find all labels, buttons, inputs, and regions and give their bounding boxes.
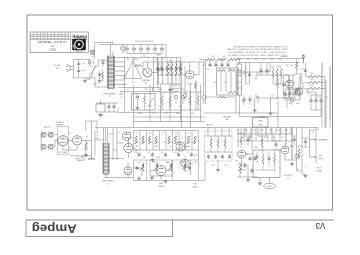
svg-text:40MF: 40MF [158, 89, 162, 91]
label driver1 [256, 97, 260, 102]
svg-text:1/2 WATT UNLESS NOTED. SEE CHA: 1/2 WATT UNLESS NOTED. SEE CHART NO. 120… [228, 54, 289, 57]
lamp DS1 [121, 45, 126, 54]
Ampeg logo [71, 34, 87, 53]
svg-text:C29: C29 [82, 63, 85, 65]
svg-text:R81: R81 [290, 65, 293, 67]
svg-text:ampeg inc: ampeg inc [76, 51, 84, 53]
svg-text:C52: C52 [316, 97, 319, 99]
footer rule [26, 219, 334, 221]
svg-text:C71: C71 [252, 130, 255, 132]
svg-text:J2: J2 [59, 143, 61, 145]
resistors R80 R81 [294, 59, 303, 97]
svg-text:R62: R62 [222, 56, 225, 58]
svg-text:R84: R84 [310, 73, 313, 75]
svg-text:R99: R99 [238, 157, 241, 159]
svg-text:PREAMP: PREAMP [56, 124, 64, 127]
svg-text:RECT: RECT [119, 94, 124, 96]
svg-text:(ECHO): (ECHO) [206, 125, 213, 127]
svg-text:R9: R9 [149, 133, 151, 135]
svg-text:R14: R14 [174, 133, 177, 135]
resistors R50-R53 [167, 62, 181, 84]
svg-text:.02: .02 [281, 137, 283, 139]
capacitor C46 [259, 63, 262, 76]
svg-text:C11: C11 [185, 142, 188, 144]
svg-text:AC BAL: AC BAL [259, 115, 265, 118]
svg-text:V5: V5 [242, 102, 244, 104]
wire B+ bus [143, 62, 205, 88]
preamp lower rows [134, 160, 199, 181]
svg-text:R3: R3 [69, 133, 71, 135]
svg-text:R98: R98 [284, 130, 287, 132]
svg-text:R73: R73 [168, 106, 171, 108]
wire loop box [256, 75, 293, 98]
plug P1 [66, 65, 70, 72]
wire filter rails [73, 59, 90, 78]
label foot pedal [317, 167, 323, 172]
svg-text:R25: R25 [128, 132, 131, 134]
output stage mesh [237, 128, 293, 142]
svg-text:20MF: 20MF [170, 89, 174, 91]
svg-text:C30: C30 [82, 70, 85, 72]
label echo [206, 125, 213, 130]
svg-text:V3: V3 [315, 221, 325, 230]
svg-text:R92: R92 [270, 59, 273, 61]
label ext spkr [319, 156, 325, 161]
label C23 [173, 85, 180, 93]
phase splitter triangle [124, 58, 142, 79]
svg-text:R71: R71 [148, 106, 151, 108]
svg-text:R61: R61 [211, 56, 214, 58]
wire gnd tap [84, 78, 86, 79]
svg-text:R72: R72 [158, 106, 161, 108]
tube V4B [295, 84, 302, 98]
capacitor C31 [94, 71, 102, 86]
wire lower bus [134, 150, 206, 181]
capacitor C33 [101, 59, 104, 67]
svg-text:C61: C61 [262, 59, 265, 61]
svg-text:R40: R40 [225, 119, 228, 121]
jack J2 [50, 133, 53, 136]
svg-text:C8: C8 [143, 142, 145, 144]
speaker arrow 2 [310, 156, 317, 158]
svg-text:CHAS: CHAS [258, 120, 264, 123]
label 117VAC [53, 64, 61, 70]
wire to primary [90, 60, 108, 87]
svg-text:R86: R86 [310, 85, 313, 87]
wire V2 out [63, 128, 95, 161]
ground filter [169, 88, 171, 90]
label ac bal [259, 115, 265, 118]
wire bias drop [205, 60, 207, 105]
capacitors C23-C25 [156, 58, 182, 76]
capacitor C30 [77, 67, 85, 78]
psu left cluster [96, 100, 118, 117]
wire rl net2 [238, 164, 260, 182]
svg-text:12005: 12005 [49, 49, 56, 52]
svg-text:8MF: 8MF [254, 147, 257, 149]
transformer T1 [107, 56, 114, 90]
capacitors C55-C58 [283, 89, 301, 100]
svg-text:117 VAC: 117 VAC [53, 64, 61, 67]
svg-text:PEDAL: PEDAL [317, 169, 323, 172]
wire lower buses [118, 58, 160, 92]
Ampeg footer box [26, 220, 173, 237]
component value labels [59, 56, 328, 171]
reverb unit box [253, 150, 280, 178]
svg-text:8: 8 [306, 167, 307, 169]
resistor R58 [297, 146, 303, 160]
label fig [76, 158, 86, 162]
svg-text:PWR TRANS: PWR TRANS [102, 180, 114, 183]
tube V4B2 [181, 156, 193, 172]
svg-text:MFD 50: MFD 50 [81, 156, 87, 158]
wire mesh verticals [134, 131, 199, 151]
svg-text:6L6: 6L6 [257, 73, 260, 75]
wire rl drops [238, 128, 292, 151]
wire filter join [154, 58, 181, 96]
ground mid2 [151, 176, 153, 178]
tube V6 [281, 146, 292, 154]
tube V3B2 [286, 75, 294, 98]
wire driver top [204, 97, 278, 128]
wire lamp leads [142, 62, 159, 79]
svg-text:C12: C12 [187, 133, 190, 135]
svg-text:SPEAKER: SPEAKER [319, 139, 329, 142]
svg-text:R85: R85 [310, 79, 313, 81]
capacitor C45 [246, 63, 252, 85]
wire mid links [134, 147, 191, 180]
potentiometers [140, 163, 187, 171]
border frame [27, 15, 333, 210]
svg-text:R10: R10 [149, 142, 152, 144]
wire ot verticals [292, 128, 316, 175]
feedback resistors R84-R86 [303, 75, 325, 127]
svg-text:C72: C72 [268, 130, 271, 132]
capacitor C71 [272, 141, 280, 150]
svg-text:Ampeg: Ampeg [32, 221, 77, 233]
svg-text:R15: R15 [177, 142, 180, 144]
label T3 [283, 175, 292, 180]
svg-text:R51: R51 [177, 61, 180, 63]
svg-text:HUM BAL: HUM BAL [223, 115, 231, 118]
svg-text:C60: C60 [246, 59, 249, 61]
fuse F1 [88, 60, 95, 64]
wire rt gnd drops [255, 98, 271, 112]
svg-text:INPUT 1: INPUT 1 [44, 127, 51, 129]
svg-text:C41: C41 [223, 82, 226, 84]
wire rt top bus [237, 59, 304, 64]
svg-text:1N4007: 1N4007 [133, 59, 139, 61]
svg-text:C10: C10 [170, 142, 173, 144]
echo send network [205, 128, 233, 181]
wire mid verticals [182, 62, 204, 128]
svg-text:NO SIGNAL. LINE AT 117 V.A.C.: NO SIGNAL. LINE AT 117 V.A.C. RESISTORS [229, 51, 287, 54]
svg-text:.02: .02 [169, 146, 171, 148]
jack J4 [50, 145, 53, 148]
capacitor C48 [282, 75, 285, 98]
label figure1 [56, 122, 64, 127]
svg-text:R80: R80 [285, 65, 288, 67]
switch SW1 [87, 66, 96, 81]
svg-text:C24: C24 [155, 59, 158, 61]
grounds mid [137, 158, 168, 183]
tube V4C [176, 142, 185, 151]
svg-text:R1: R1 [127, 59, 129, 61]
svg-text:C9: C9 [162, 133, 164, 135]
ground C31 [99, 79, 101, 81]
label T2 [102, 180, 114, 186]
label T1 [104, 92, 117, 98]
resistor R2 [84, 140, 88, 156]
title block [30, 32, 89, 53]
wire AC leads [70, 59, 73, 78]
capacitor C42 [242, 95, 245, 105]
svg-text:RATING. VOLTAGES TO GND MEASUR: RATING. VOLTAGES TO GND MEASURED WITH VT… [227, 48, 288, 51]
svg-text:R1: R1 [145, 83, 147, 85]
capacitor C47 [265, 63, 268, 76]
svg-text:L1: L1 [127, 89, 129, 91]
svg-text:16: 16 [297, 169, 299, 171]
tube V1 [58, 136, 68, 154]
svg-text:R17: R17 [186, 152, 189, 154]
capacitor C63 [302, 138, 310, 147]
ground psu1 [137, 106, 139, 108]
resistor R34 [218, 96, 226, 98]
svg-text:R97: R97 [276, 130, 279, 132]
svg-text:12AX7: 12AX7 [192, 186, 198, 189]
svg-text:C44: C44 [270, 96, 273, 98]
tube V2C [124, 167, 132, 175]
svg-text:12DW7: 12DW7 [158, 186, 164, 188]
tube V3B [156, 166, 166, 189]
note text [227, 45, 289, 57]
ground rt2 [270, 112, 272, 114]
svg-text:.02: .02 [86, 143, 88, 145]
resistor R33 [195, 82, 197, 89]
svg-text:V5: V5 [235, 161, 237, 163]
svg-text:T3: T3 [312, 132, 314, 134]
svg-text:PWR TRANS: PWR TRANS [104, 92, 117, 95]
wire V3A leads [182, 62, 199, 75]
capacitor C50 [304, 63, 307, 77]
svg-text:.02: .02 [157, 142, 159, 144]
svg-text:C70: C70 [236, 130, 239, 132]
svg-text:C40: C40 [213, 82, 216, 84]
svg-text:R96: R96 [260, 130, 263, 132]
svg-text:C9: C9 [148, 152, 150, 154]
wire ot links [292, 130, 316, 174]
resistor R77 [245, 63, 247, 85]
wire T1 top feed [99, 41, 166, 56]
svg-text:470: 470 [307, 93, 310, 95]
wire psu drops [125, 84, 201, 128]
svg-text:.1: .1 [257, 137, 258, 139]
tube V2 [72, 136, 81, 145]
bias network R60 C40 [199, 58, 240, 67]
grounds rl [246, 162, 294, 185]
jack J7 [295, 154, 299, 158]
node B+ arrow [302, 55, 305, 63]
preamp RC network [134, 136, 199, 160]
wire right bus [318, 63, 330, 132]
wire rt extras [237, 63, 330, 128]
svg-text:D1 D2 D3 D4 D5 D6: D1 D2 D3 D4 D5 D6 [135, 41, 154, 43]
capacitor C70 [244, 136, 252, 145]
wire psu down links [86, 121, 97, 131]
svg-text:C76: C76 [245, 154, 248, 156]
svg-text:1500: 1500 [173, 152, 177, 154]
svg-text:R44: R44 [224, 165, 227, 167]
tube V2A2 [122, 132, 130, 140]
svg-text:C20: C20 [206, 69, 209, 71]
output cathode parts [237, 156, 258, 177]
svg-text:C15: C15 [96, 132, 99, 134]
svg-text:GND: GND [258, 124, 263, 126]
capacitors C24 C25 [157, 62, 164, 84]
resistor R95 [238, 133, 244, 148]
svg-text:VOL: VOL [138, 162, 141, 164]
wire V2B leads [124, 138, 136, 178]
svg-text:R91: R91 [254, 59, 257, 61]
svg-text:C7: C7 [136, 133, 138, 135]
svg-text:SPKR: SPKR [319, 159, 325, 161]
svg-text:R16: R16 [191, 142, 194, 144]
ground rt1 [254, 109, 256, 111]
svg-text:C80: C80 [211, 165, 214, 167]
svg-text:V1 12AX7: V1 12AX7 [58, 151, 68, 154]
svg-text:R11: R11 [161, 152, 164, 154]
ground ot [305, 174, 307, 176]
svg-text:6L6: 6L6 [243, 73, 246, 75]
svg-text:C33: C33 [120, 91, 123, 93]
svg-text:SW1: SW1 [87, 79, 91, 81]
lamp PL2 [202, 96, 206, 104]
svg-text:NO: NO [65, 34, 68, 36]
speaker arrow 1 [310, 139, 317, 141]
svg-text:1K5: 1K5 [272, 137, 275, 139]
svg-text:MODEL V3 P.A.: MODEL V3 P.A. [38, 41, 68, 44]
wire top-left net [94, 43, 112, 59]
svg-text:R55: R55 [181, 89, 184, 91]
svg-text:R5: R5 [132, 82, 134, 84]
jack J3 [42, 145, 45, 148]
svg-text:R95: R95 [244, 130, 247, 132]
svg-text:C23 C24: C23 C24 [173, 85, 180, 87]
svg-text:C25: C25 [161, 59, 164, 61]
svg-text:V3: V3 [185, 94, 187, 96]
resistor R6 [135, 65, 142, 67]
svg-text:.047: .047 [288, 103, 291, 105]
wire rt col [239, 89, 321, 117]
svg-text:J1: J1 [59, 131, 61, 133]
svg-text:V4: V4 [208, 127, 210, 129]
svg-text:A-765: A-765 [267, 185, 272, 188]
capacitor C62 [292, 136, 297, 145]
wire psu bus [95, 108, 318, 128]
capacitor C43 [248, 95, 251, 105]
wire jack net [41, 133, 58, 151]
resistors R87-R89 [272, 67, 282, 85]
svg-text:T2: T2 [106, 183, 108, 185]
tube V3A [186, 71, 194, 86]
wire V1 to V2 [68, 140, 72, 142]
svg-text:D7: D7 [120, 97, 122, 99]
svg-text:C53: C53 [324, 97, 327, 99]
svg-text:100: 100 [241, 137, 244, 139]
mid labels [136, 133, 198, 159]
svg-text:20: 20 [96, 135, 98, 137]
svg-text:R18: R18 [194, 155, 197, 157]
svg-text:C15: C15 [117, 132, 120, 134]
svg-text:ch: ch [45, 38, 47, 40]
wire T1 secondary taps [114, 58, 125, 89]
svg-text:R19: R19 [194, 162, 197, 164]
title text MODEL V3 PA [38, 41, 68, 52]
chassis box [253, 118, 269, 128]
ground filter [84, 79, 86, 81]
svg-text:R30: R30 [202, 65, 205, 67]
part oval [264, 183, 276, 188]
svg-text:.1: .1 [271, 98, 272, 100]
wire oval lead [269, 178, 271, 184]
svg-text:C50: C50 [300, 69, 303, 71]
shield box V1 [57, 126, 69, 154]
jack J1 [42, 133, 45, 136]
svg-text:R4: R4 [86, 136, 88, 138]
wire T2 net [95, 128, 134, 178]
svg-text:5U4: 5U4 [144, 89, 147, 91]
resistor R78 [277, 75, 279, 98]
transformer T2 [103, 128, 109, 175]
wire output links [238, 143, 292, 164]
svg-text:R90: R90 [238, 59, 241, 61]
lamp I1 [142, 68, 152, 85]
resistors R70-R74 [158, 92, 202, 110]
label driver2 [270, 96, 273, 101]
capacitor C29 [77, 59, 85, 70]
svg-text:.01: .01 [91, 56, 93, 58]
svg-text:R82: R82 [295, 65, 298, 67]
diodes D1-D6 [126, 45, 164, 54]
label driver3 [284, 95, 289, 100]
svg-text:R8: R8 [136, 146, 138, 148]
tube V5 [235, 150, 245, 163]
svg-text:R50: R50 [169, 61, 172, 63]
svg-text:.02: .02 [293, 75, 295, 77]
capacitor C28 [90, 50, 94, 58]
svg-text:5AR4: 5AR4 [156, 53, 160, 56]
capacitor can C22 [237, 59, 242, 104]
lamp PL1 [183, 94, 187, 101]
svg-text:ALWAYS REPLACE FUSES WITH SAME: ALWAYS REPLACE FUSES WITH SAME TYPE [234, 45, 289, 48]
resistor R36 [102, 69, 104, 82]
resistor R96 [258, 136, 266, 150]
svg-text:C62: C62 [278, 59, 281, 61]
label V4B [192, 184, 198, 189]
rectifier box D7 [119, 92, 155, 111]
svg-text:T3: T3 [287, 178, 289, 180]
svg-text:R74: R74 [178, 106, 181, 108]
tube V2B [124, 143, 138, 152]
lamp NE1 [290, 98, 294, 105]
label C15 col [95, 132, 100, 140]
bias box [217, 68, 239, 95]
resistor R79 [288, 75, 290, 98]
svg-text:R12: R12 [163, 142, 166, 144]
svg-text:C75: C75 [290, 146, 293, 148]
label hum bal [223, 115, 231, 121]
svg-text:V6: V6 [257, 102, 259, 104]
